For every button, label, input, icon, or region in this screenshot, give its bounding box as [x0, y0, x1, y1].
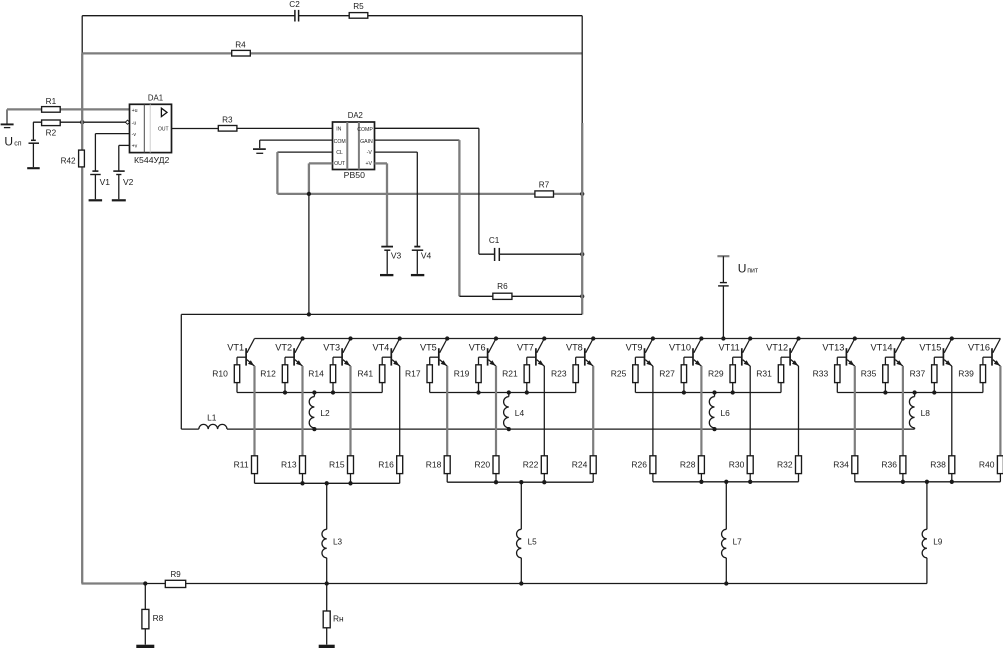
svg-text:R35: R35	[861, 368, 877, 378]
svg-text:L1: L1	[207, 413, 217, 423]
ground (DA2 COM)	[253, 149, 266, 153]
battery V4	[411, 247, 432, 276]
svg-text:R39: R39	[958, 368, 974, 378]
wire emitter of VT9	[652, 366, 654, 456]
wire emitter bottom rail (R34-R40 group)	[855, 481, 1001, 483]
resistor R41	[358, 365, 385, 393]
svg-text:L7: L7	[733, 538, 743, 547]
wire emitter of VT14	[902, 366, 904, 456]
ground (under R8)	[136, 645, 154, 648]
svg-text:IN: IN	[336, 127, 341, 133]
svg-text:DA1: DA1	[148, 93, 163, 102]
svg-text:+u: +u	[132, 108, 138, 114]
driver DA2 РВ50	[333, 111, 375, 180]
svg-text:R19: R19	[454, 368, 470, 378]
svg-text:R21: R21	[502, 368, 518, 378]
svg-text:VT6: VT6	[469, 343, 486, 353]
junction dots on bottom rail	[901, 480, 954, 484]
svg-text:R25: R25	[611, 368, 627, 378]
svg-text:DA2: DA2	[348, 111, 363, 120]
resistor R34	[833, 456, 857, 482]
wire DA1 OUT to R3	[172, 128, 219, 130]
transistor VT16	[968, 339, 1000, 367]
inductor L6	[709, 393, 730, 430]
transistor VT14	[871, 339, 903, 367]
wire R3 to DA2 IN	[237, 127, 333, 129]
wire base of VT12	[781, 357, 790, 365]
wire R2 to DA1 -u	[33, 121, 129, 123]
node junction L5/bottom wire	[519, 581, 523, 585]
resistor R40	[979, 456, 1003, 482]
svg-text:R1: R1	[46, 97, 57, 106]
svg-text:R2: R2	[46, 128, 57, 137]
capacitor C2	[289, 0, 300, 21]
resistor R3	[218, 116, 237, 132]
wire collector rail (Upit)	[255, 338, 1001, 340]
svg-text:VT14: VT14	[871, 343, 893, 353]
svg-text:R27: R27	[659, 368, 675, 378]
wire emitter bottom rail (R18-R24 group)	[447, 481, 593, 483]
svg-text:C2: C2	[289, 0, 300, 9]
battery V1	[89, 171, 111, 200]
wire top feedback (C2/R5 net)	[82, 16, 582, 54]
svg-text:R14: R14	[308, 368, 324, 378]
resistor R19	[454, 365, 481, 393]
svg-text:U: U	[738, 261, 747, 275]
svg-text:R9: R9	[170, 570, 181, 579]
svg-text:R24: R24	[572, 459, 588, 469]
svg-text:VT8: VT8	[566, 343, 583, 353]
svg-text:R38: R38	[930, 459, 946, 469]
svg-text:L5: L5	[528, 538, 538, 547]
junction dots on bottom rail	[494, 480, 547, 484]
wire emitter of VT1	[253, 366, 255, 456]
svg-text:VT2: VT2	[275, 343, 292, 353]
wire base of VT6	[479, 357, 488, 365]
wire base rail (VT9-VT12 group)	[635, 392, 781, 394]
resistor R38	[930, 456, 954, 482]
svg-text:VT7: VT7	[517, 343, 534, 353]
resistor R25	[611, 365, 638, 393]
ground (input)	[1, 109, 14, 127]
wire emitter of VT6	[495, 366, 497, 456]
node junction R7/right bus	[580, 192, 584, 196]
node junction C1/right bus	[580, 252, 584, 256]
transistor VT12	[766, 339, 798, 367]
svg-text:R8: R8	[153, 613, 164, 623]
svg-text:L4: L4	[515, 408, 525, 418]
svg-text:R20: R20	[475, 459, 491, 469]
resistor R2	[42, 120, 61, 137]
resistor R9	[165, 570, 185, 587]
transistor VT5	[420, 339, 447, 367]
svg-text:R3: R3	[222, 116, 233, 125]
resistor R32	[777, 456, 801, 482]
wire R4 feedback	[82, 52, 582, 54]
wire DA1 +v to V2	[119, 145, 130, 171]
svg-text:R42: R42	[61, 156, 76, 165]
wire left bus (feedback to bottom)	[81, 53, 83, 583]
svg-text:VT12: VT12	[766, 343, 788, 353]
resistor R28	[680, 456, 704, 482]
svg-text:VT11: VT11	[719, 343, 740, 353]
transistor VT15	[919, 339, 951, 367]
svg-text:VT10: VT10	[669, 343, 691, 353]
node junction R8 branch	[143, 581, 147, 585]
wire base rail (VT13-VT16 group)	[837, 392, 983, 394]
svg-text:R33: R33	[813, 368, 829, 378]
svg-text:R32: R32	[777, 459, 793, 469]
wire emitter of VT4	[399, 366, 401, 456]
resistor R20	[475, 456, 499, 482]
transistor VT13	[822, 339, 854, 367]
wire DA2 CL to R7 net	[277, 152, 582, 194]
inductor L2	[309, 393, 330, 430]
svg-text:R17: R17	[405, 368, 421, 378]
wire emitter of VT13	[854, 366, 856, 456]
op-amp DA1 К544УД2	[130, 93, 172, 165]
svg-text:OUT: OUT	[158, 126, 169, 132]
svg-text:VT13: VT13	[822, 343, 844, 353]
svg-text:V3: V3	[391, 251, 402, 261]
node junction R6/right bus	[580, 294, 584, 298]
resistor R10	[212, 365, 239, 393]
resistor R8	[142, 584, 164, 645]
node junction L2/L1 bus	[312, 427, 316, 431]
svg-text:R5: R5	[353, 2, 364, 11]
svg-text:пит: пит	[747, 268, 759, 275]
resistor R11	[234, 456, 258, 484]
svg-text:R31: R31	[756, 368, 772, 378]
svg-text:-u: -u	[132, 121, 137, 127]
wire base of VT1	[237, 357, 246, 365]
wire base of VT9	[635, 357, 644, 365]
svg-text:R13: R13	[281, 459, 297, 469]
svg-text:РВ50: РВ50	[344, 170, 365, 180]
inductor L9	[922, 482, 943, 584]
inductor L7	[722, 482, 743, 584]
resistor R36	[881, 456, 905, 482]
battery V2	[112, 171, 134, 200]
node junction R2/feedback bus	[80, 120, 84, 124]
inductor L5	[517, 482, 538, 583]
wire base of VT11	[733, 357, 742, 365]
svg-text:-V: -V	[367, 150, 373, 156]
transistor VT6	[469, 339, 496, 367]
wire bottom return	[82, 582, 927, 584]
svg-text:VT16: VT16	[968, 343, 990, 353]
wire base rail (VT5-VT8 group)	[430, 392, 576, 394]
wire DA2 +V to V3	[375, 163, 388, 246]
node junction L7/bottom wire	[724, 581, 728, 585]
svg-text:R40: R40	[979, 459, 995, 469]
svg-text:L6: L6	[721, 408, 731, 418]
wire DA1 -v to V1	[95, 134, 129, 172]
wire emitter of VT12	[798, 366, 800, 456]
svg-text:R34: R34	[833, 459, 849, 469]
svg-text:Rн: Rн	[333, 613, 344, 623]
svg-text:GAIN: GAIN	[360, 139, 373, 145]
junction dots on base rail	[682, 390, 735, 394]
resistor R26	[631, 456, 655, 482]
resistor R30	[729, 456, 753, 482]
wire emitter of VT2	[301, 366, 303, 456]
node junction OUT/CL net	[307, 192, 311, 196]
svg-text:R28: R28	[680, 459, 696, 469]
resistor R18	[426, 456, 450, 482]
svg-text:-v: -v	[132, 132, 137, 138]
transistor VT3	[323, 339, 350, 367]
wire L1 bus (emitter drive)	[181, 428, 914, 430]
wire base rail (VT1-VT4 group)	[237, 392, 382, 394]
svg-text:R29: R29	[708, 368, 724, 378]
wire DA2 COMP to C1	[375, 128, 583, 254]
resistor R22	[523, 456, 547, 482]
svg-text:V1: V1	[100, 177, 111, 187]
svg-text:OUT: OUT	[334, 161, 346, 167]
svg-text:L9: L9	[933, 538, 943, 547]
svg-text:VT1: VT1	[227, 343, 244, 353]
resistor R14	[308, 365, 335, 393]
transistor VT4	[372, 339, 399, 367]
inductor L4	[504, 393, 525, 430]
svg-text:L2: L2	[320, 408, 330, 418]
svg-text:CL: CL	[336, 150, 343, 156]
node junction L4/L1 bus	[507, 427, 511, 431]
resistor R16	[378, 456, 402, 484]
junction dots on base rail	[883, 390, 936, 394]
node junction L6/L1 bus	[712, 427, 716, 431]
svg-text:R15: R15	[329, 459, 345, 469]
resistor R12	[260, 365, 287, 393]
wire base of VT15	[934, 357, 943, 365]
junction dots on collector rail	[300, 336, 954, 340]
node junction L3/bottom wire	[325, 581, 329, 585]
wire R1 to DA1 +u	[7, 108, 130, 110]
resistor R15	[329, 456, 353, 484]
inverting input circle DA1	[125, 120, 129, 124]
svg-text:R11: R11	[234, 459, 249, 469]
junction dots on base rail	[283, 390, 335, 394]
battery V3	[380, 247, 402, 276]
wire emitter of VT11	[749, 366, 751, 456]
wire base of VT8	[576, 357, 585, 365]
resistor R4	[232, 41, 251, 56]
svg-text:R12: R12	[260, 368, 276, 378]
svg-text:R16: R16	[378, 459, 394, 469]
svg-text:COM: COM	[334, 139, 346, 145]
resistor R23	[551, 365, 578, 393]
node junction Upit/collector rail	[721, 336, 725, 340]
wire emitter of VT3	[349, 366, 351, 456]
junction dots on base rail	[476, 390, 529, 394]
wire emitter of VT16	[999, 366, 1001, 456]
resistor R21	[502, 365, 529, 393]
resistor R24	[572, 456, 596, 482]
resistor R5	[349, 2, 368, 18]
svg-text:R10: R10	[212, 368, 228, 378]
svg-text:U: U	[4, 135, 13, 149]
resistor R42	[61, 150, 85, 167]
inductor L8	[909, 393, 930, 430]
wire emitter bottom rail (R26-R32 group)	[653, 481, 799, 483]
transistor VT2	[275, 339, 302, 367]
wire base of VT13	[837, 357, 846, 365]
svg-text:R18: R18	[426, 459, 442, 469]
wire base of VT5	[430, 357, 439, 365]
svg-text:+v: +v	[132, 144, 138, 150]
wire emitter of VT8	[592, 366, 594, 456]
svg-text:+V: +V	[366, 161, 373, 167]
ground (under Rn)	[319, 645, 335, 648]
svg-text:C1: C1	[489, 236, 500, 245]
svg-text:R37: R37	[910, 368, 926, 378]
wire base of VT16	[983, 357, 992, 365]
junction dots on bottom rail	[300, 481, 352, 485]
svg-text:R41: R41	[358, 368, 374, 378]
svg-text:R30: R30	[729, 459, 745, 469]
wire emitter of VT5	[446, 366, 448, 456]
svg-text:COMP: COMP	[357, 127, 373, 133]
wire emitter of VT15	[951, 366, 953, 456]
transistor VT8	[566, 339, 593, 367]
svg-text:R7: R7	[539, 181, 550, 190]
wire emitter bottom rail (R11-R16 group)	[255, 482, 400, 484]
junction dots on bottom rail	[699, 480, 752, 484]
svg-text:L8: L8	[921, 408, 931, 418]
wire DA2 -V to V4	[375, 152, 418, 246]
resistor R6	[493, 282, 512, 299]
resistor R37	[910, 365, 937, 393]
wire base drive down to L1	[180, 314, 182, 429]
capacitor C1	[489, 236, 500, 261]
svg-text:R36: R36	[881, 459, 897, 469]
svg-text:R4: R4	[235, 41, 246, 50]
wire base drive (horizontal)	[181, 313, 582, 315]
inductor L3	[322, 483, 343, 583]
svg-text:VT5: VT5	[420, 343, 437, 353]
transistor VT10	[669, 339, 701, 367]
wire emitter of VT7	[543, 366, 545, 456]
resistor R27	[659, 365, 686, 393]
svg-text:V2: V2	[123, 177, 134, 187]
resistor R7	[535, 181, 554, 197]
resistor R13	[281, 456, 305, 484]
svg-text:R26: R26	[631, 459, 647, 469]
svg-text:К544УД2: К544УД2	[134, 155, 170, 165]
wire base of VT14	[885, 357, 894, 365]
svg-text:сп: сп	[14, 141, 22, 148]
wire base of VT7	[527, 357, 536, 365]
svg-text:VT3: VT3	[323, 343, 340, 353]
wire right bus	[581, 16, 583, 315]
supply Upit	[717, 256, 759, 338]
wire DA2 GAIN to R6	[375, 140, 583, 296]
wire base of VT4	[382, 357, 391, 365]
resistor R17	[405, 365, 432, 393]
svg-text:R22: R22	[523, 459, 539, 469]
svg-text:VT9: VT9	[626, 343, 643, 353]
transistor VT1	[227, 339, 254, 367]
svg-text:L3: L3	[333, 538, 343, 547]
svg-text:R6: R6	[497, 282, 508, 291]
resistor R35	[861, 365, 888, 393]
wire base of VT2	[285, 357, 294, 365]
inductor L1	[199, 413, 227, 430]
svg-text:VT15: VT15	[919, 343, 941, 353]
source Ucp	[4, 122, 39, 168]
resistor R1	[42, 97, 61, 112]
svg-text:VT4: VT4	[372, 343, 389, 353]
wire base of VT3	[333, 357, 342, 365]
transistor VT9	[626, 339, 653, 367]
node junction OUT vertical/base drive	[307, 312, 311, 316]
svg-text:R23: R23	[551, 368, 567, 378]
transistor VT7	[517, 339, 544, 367]
wire DA2 COM to ground	[260, 140, 333, 148]
resistor R39	[958, 365, 985, 393]
wire DA2 OUT down	[309, 163, 333, 314]
resistor R29	[708, 365, 735, 393]
wire base of VT10	[684, 357, 693, 365]
wire emitter of VT10	[700, 366, 702, 456]
svg-text:V4: V4	[421, 251, 432, 261]
resistor R31	[756, 365, 783, 393]
resistor R33	[813, 365, 840, 393]
transistor VT11	[719, 339, 751, 367]
resistor Rn (load)	[323, 584, 344, 645]
